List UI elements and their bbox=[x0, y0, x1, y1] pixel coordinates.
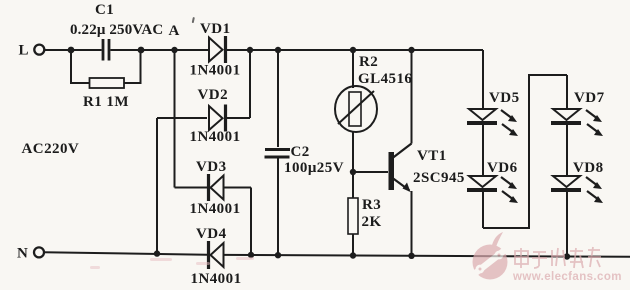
svg-text:www.elecfans.com: www.elecfans.com bbox=[512, 271, 622, 283]
svg-text:VD5: VD5 bbox=[489, 90, 520, 106]
svg-text:R2: R2 bbox=[359, 54, 378, 70]
svg-text:L: L bbox=[19, 43, 29, 59]
svg-text:C2: C2 bbox=[291, 144, 310, 160]
svg-text:1N4001: 1N4001 bbox=[191, 271, 242, 287]
svg-text:VD8: VD8 bbox=[573, 160, 604, 176]
svg-text:VD6: VD6 bbox=[487, 160, 518, 176]
svg-text:VD7: VD7 bbox=[574, 90, 605, 106]
svg-text:C1: C1 bbox=[95, 2, 114, 18]
svg-text:VT1: VT1 bbox=[417, 148, 447, 164]
svg-text:AC220V: AC220V bbox=[22, 141, 80, 157]
svg-text:N: N bbox=[17, 246, 28, 262]
svg-text:1N4001: 1N4001 bbox=[190, 129, 241, 145]
svg-text:2K: 2K bbox=[362, 214, 382, 230]
svg-text:100μ25V: 100μ25V bbox=[284, 160, 344, 176]
svg-text:VD4: VD4 bbox=[196, 226, 227, 242]
svg-text:A: A bbox=[169, 23, 180, 39]
svg-text:0.22μ 250VAC: 0.22μ 250VAC bbox=[70, 22, 163, 38]
svg-text:VD1: VD1 bbox=[200, 21, 231, 37]
svg-text:1N4001: 1N4001 bbox=[190, 201, 241, 217]
svg-text:2SC945: 2SC945 bbox=[413, 170, 465, 186]
svg-text:GL4516: GL4516 bbox=[358, 71, 412, 87]
svg-text:R3: R3 bbox=[362, 197, 381, 213]
svg-text:1N4001: 1N4001 bbox=[190, 63, 241, 79]
svg-text:VD3: VD3 bbox=[196, 159, 227, 175]
svg-text:R1 1M: R1 1M bbox=[83, 94, 129, 110]
svg-text:VD2: VD2 bbox=[198, 87, 229, 103]
